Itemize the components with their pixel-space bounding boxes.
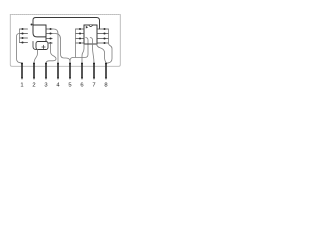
wire right bus — [107, 29, 113, 63]
wire cell dot down to pin 3 — [46, 43, 56, 63]
relay element B body — [84, 25, 97, 44]
pin stub B left y29 — [76, 28, 85, 30]
junction dot pin 6 — [81, 63, 83, 65]
pin stub B left y33.5 — [76, 33, 85, 35]
pin lead 5 — [69, 64, 71, 78]
wire top bus from element A to right bus — [33, 18, 100, 30]
pin stub A left y42.5 — [20, 42, 28, 44]
pin stub A right y33.5 — [46, 33, 52, 35]
wire rail pin 5 up to element B bottom — [70, 38, 88, 64]
pin stub B left y38.5 — [76, 38, 85, 40]
junction dot pin 8 — [105, 63, 107, 65]
junction dot A right y38.5 — [49, 37, 51, 39]
junction dot pin 5 — [69, 63, 71, 65]
junction dot A right y29 — [49, 28, 51, 30]
polarity mark + element A — [42, 45, 45, 48]
junction dot B left y38.5 — [79, 37, 81, 39]
pin lead 1 — [21, 64, 23, 78]
junction dot A cell y43 — [49, 42, 51, 44]
wire left collector bus — [19, 29, 21, 43]
junction dot pin 4 — [57, 63, 59, 65]
svg-text:6: 6 — [80, 83, 83, 89]
junction dot A left y38 — [21, 37, 23, 39]
pin lead 6 — [81, 64, 83, 78]
junction dot A left y29 — [21, 28, 23, 30]
polarity mark + element B — [86, 26, 88, 29]
wire cell bottom to pin 2 — [34, 50, 38, 64]
junction dot B left y33.5 — [79, 32, 81, 34]
svg-text:1: 1 — [20, 83, 23, 89]
wire bus to pin 1 — [17, 34, 23, 64]
wire A right y29 down to pin 4 — [52, 29, 58, 64]
pin stub A left y33.5 — [20, 33, 28, 35]
wire B left bus down to common rail — [75, 29, 77, 57]
pin stub B right y38.5 — [97, 38, 109, 40]
junction dot B right y29 — [103, 28, 105, 30]
pin lead 7 — [93, 64, 95, 78]
notch on element B top edge — [89, 25, 93, 27]
junction dot pin 7 — [93, 63, 95, 65]
package outline (DIP-8 body, sides) — [10, 15, 120, 67]
svg-text:4: 4 — [56, 83, 60, 89]
pin stub A cell right y43 — [48, 42, 52, 44]
pin lead 2 — [33, 64, 35, 78]
pin stub B right y33.5 — [97, 33, 109, 35]
svg-text:8: 8 — [104, 83, 107, 89]
svg-text:5: 5 — [68, 83, 71, 89]
junction dot pin 2 — [33, 63, 35, 65]
wire element A left edge to cell bottom corner — [33, 42, 38, 50]
svg-text:3: 3 — [44, 83, 47, 89]
junction dot B left y29 — [79, 28, 81, 30]
pin stub A right y29 — [46, 28, 52, 30]
junction dot A left y42.5 — [21, 41, 23, 43]
junction dot pin 3 — [45, 63, 47, 65]
pin stub A left y38 — [20, 37, 28, 39]
junction dot A right y33.5 — [49, 32, 51, 34]
wire A right y33.5 to common rail and up to element B bottom — [52, 34, 70, 64]
junction dot B right y43 — [103, 42, 105, 44]
pin stub B right y29 — [97, 28, 109, 30]
svg-text:7: 7 — [92, 83, 95, 89]
pin stub B left y43 — [76, 42, 85, 44]
pin lead 3 — [45, 64, 47, 78]
svg-text:2: 2 — [32, 83, 35, 89]
relay element A body — [33, 25, 46, 42]
relay element A input cell (rounded box) — [36, 42, 48, 50]
junction dot A left y33.5 — [21, 32, 23, 34]
junction dot B left y43 — [79, 42, 81, 44]
wire B corner to pin 8 — [97, 44, 107, 63]
junction dot element A top corner — [31, 24, 33, 26]
pin stub A left y29 — [20, 28, 28, 30]
junction dot B right y38.5 — [103, 37, 105, 39]
wire B bottom to pin 7 — [90, 38, 94, 64]
package outline top edge (dashed) — [10, 14, 120, 16]
element A left edge and internal divider — [33, 25, 46, 37]
wire B bottom to pin 6 — [82, 44, 84, 64]
pin stub A right y38.5 — [46, 38, 52, 40]
junction dot pin 1 — [21, 63, 23, 65]
pin lead 8 — [105, 64, 107, 78]
junction dot B right y33.5 — [103, 32, 105, 34]
pin lead 4 — [57, 64, 59, 78]
pin stub B right y43 — [97, 42, 109, 44]
